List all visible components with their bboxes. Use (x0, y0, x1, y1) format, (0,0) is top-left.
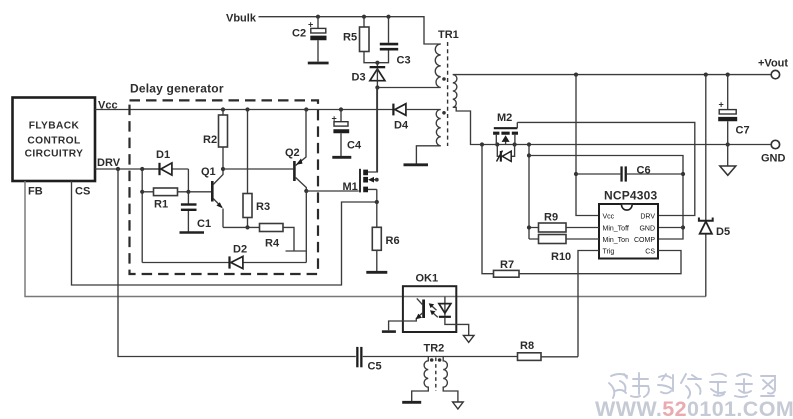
svg-text:C7: C7 (736, 125, 750, 137)
svg-text:R10: R10 (551, 251, 571, 263)
svg-text:GND: GND (761, 153, 786, 165)
svg-text:D4: D4 (394, 120, 409, 132)
ground bar under C2 (308, 62, 329, 65)
wire Vcc to R3 (247, 110, 249, 194)
svg-text:R3: R3 (256, 201, 270, 213)
wire Q1 emitter to node (223, 226, 260, 228)
capacitor C2 polarized (292, 17, 327, 62)
svg-text:Min_Toff: Min_Toff (603, 226, 629, 233)
svg-text:NCP4303: NCP4303 (604, 189, 658, 203)
ground bar for opto emitter (382, 330, 396, 333)
svg-text:Min_Ton: Min_Ton (603, 237, 630, 244)
wire gate node to M1 gate (306, 190, 358, 192)
wire TR1 aux bottom to ground (416, 146, 440, 164)
node TR1 aux phase dot (442, 111, 446, 115)
svg-text:R5: R5 (343, 32, 357, 44)
node M2 left leg (495, 142, 499, 146)
wire Vcc rail from controller to D4 (95, 109, 393, 111)
resistor R5 (343, 17, 377, 63)
svg-text:D3: D3 (352, 72, 366, 84)
svg-text:R7: R7 (500, 259, 514, 271)
node gnd branch (527, 142, 531, 146)
diode D4 (392, 104, 440, 132)
svg-text:CS: CS (75, 186, 90, 198)
node switch node (375, 85, 379, 89)
svg-text:Q1: Q1 (201, 166, 216, 178)
node R5 tap (362, 15, 366, 19)
capacitor C7 polarized (718, 75, 749, 145)
svg-text:Trig: Trig (603, 249, 615, 256)
node Q1 collector / R2 bottom (221, 167, 225, 171)
IC U1 NCP4303 (599, 189, 658, 259)
svg-text:D1: D1 (156, 149, 170, 161)
wire +Vout rail (453, 74, 771, 76)
resistor R4 (260, 224, 307, 252)
diode D5 zener (699, 75, 730, 297)
resistor R2 (203, 110, 228, 170)
diode D1 (142, 149, 188, 175)
node R9/R10 tie (527, 225, 531, 229)
svg-text:CIRCUITRY: CIRCUITRY (25, 149, 84, 160)
svg-text:M1: M1 (343, 181, 358, 193)
wire Q1 collector to Q2 base (223, 168, 293, 170)
svg-text:TR1: TR1 (438, 29, 459, 41)
wire IC GND pin (658, 227, 683, 229)
svg-text:R9: R9 (544, 212, 558, 224)
resistor R7 (482, 145, 519, 278)
wire base node to Q1 (188, 191, 211, 193)
wire FB pin down and long feedback line to D5 (25, 181, 706, 297)
node TR1 primary phase dot (442, 77, 446, 81)
node M1 body tie (375, 178, 379, 182)
wire Trig pin to trigger network (578, 251, 599, 357)
transformer TR1 (435, 29, 459, 146)
svg-text:WWW.520101.COM: WWW.520101.COM (595, 397, 793, 419)
transistor Q2 (285, 110, 306, 192)
node DRV/D1/R1 (140, 167, 144, 171)
ground arrow for LED (463, 335, 474, 342)
capacitor C5 (356, 347, 381, 373)
svg-text:C2: C2 (292, 28, 306, 40)
wire switch node down to M1 drain (376, 88, 378, 173)
wire TR1 secondary bottom to M2 drain (453, 107, 482, 144)
svg-text:FLYBACK: FLYBACK (29, 121, 80, 132)
svg-text:C3: C3 (397, 55, 411, 67)
svg-text:GND: GND (639, 226, 655, 233)
node M2 right leg (513, 142, 517, 146)
output terminal GND (771, 140, 779, 148)
wire gnd sub-branch to IC ground column (529, 156, 683, 240)
capacitor C6 (576, 165, 683, 182)
node C6 right (681, 172, 685, 176)
svg-text:FB: FB (28, 186, 43, 198)
svg-text:R2: R2 (203, 134, 217, 146)
svg-text:R8: R8 (520, 340, 534, 352)
svg-text:R4: R4 (265, 238, 280, 250)
svg-text:Vcc: Vcc (603, 214, 615, 221)
svg-text:Delay generator: Delay generator (130, 82, 224, 96)
diode D2 (142, 244, 306, 269)
wire DRV from controller (95, 168, 160, 170)
svg-text:D2: D2 (233, 244, 247, 256)
wire DRV trigger line down to C5 (118, 169, 356, 357)
node clamp junction (375, 61, 379, 65)
transformer TR2 (412, 343, 458, 402)
resistor R10 (529, 235, 599, 264)
node D5 tap (704, 73, 708, 77)
ground bar for aux winding (404, 163, 429, 166)
wire Vbulk rail (259, 17, 441, 44)
node Q1 emitter / R3 / R4 (245, 225, 249, 229)
LED OK1 diode (439, 297, 469, 336)
ground bar TR2 primary (402, 401, 421, 404)
node Q2 collector / gate node (304, 189, 308, 193)
node TR2 phase dot left (430, 358, 434, 362)
wire C5 to TR2 and R8 (363, 356, 518, 358)
svg-text:R1: R1 (154, 199, 168, 211)
ground bar under C4 (332, 156, 351, 159)
ground bar under R6 (366, 271, 387, 274)
svg-text:M2: M2 (497, 112, 512, 124)
node Vcc/Q2 emitter (304, 107, 308, 111)
svg-text:TR2: TR2 (424, 343, 445, 355)
transistor M2 (493, 112, 518, 145)
svg-text:COMP: COMP (634, 237, 655, 244)
node gnd sub-branch (527, 153, 531, 157)
svg-text:C5: C5 (368, 361, 382, 373)
ground arrow below GND rail (720, 145, 736, 176)
wire gnd branch down to R9/R10 (528, 145, 530, 240)
svg-text:+Vout: +Vout (758, 58, 788, 70)
watermark chinese calligraphy (609, 373, 775, 398)
svg-text:R6: R6 (386, 235, 400, 247)
svg-text:+: + (719, 100, 724, 110)
node C6 left (574, 172, 578, 176)
node C2 tap (316, 15, 320, 19)
node Q1 base / C1 (186, 190, 190, 194)
svg-text:Vbulk: Vbulk (226, 13, 257, 25)
ground bar under C1 (180, 231, 205, 234)
wire CS pin to R7 (519, 251, 681, 274)
svg-text:CONTROL: CONTROL (27, 136, 80, 147)
wire gate node down to D2 (305, 191, 307, 263)
resistor R1 (142, 188, 188, 211)
resistor R3 (243, 194, 270, 228)
node Vcc feed tap (574, 73, 578, 77)
transistor M1 (343, 88, 377, 203)
wire CS pin down, to M1 source (72, 181, 377, 285)
delay generator dashed box (130, 100, 319, 274)
svg-text:D5: D5 (716, 226, 730, 238)
node R1 left (140, 190, 144, 194)
wire switch node to TR1 primary bottom (377, 87, 440, 89)
flyback controller U-box (13, 98, 96, 182)
node Vcc/R2 (221, 107, 225, 111)
node C7 bottom (726, 142, 730, 146)
resistor R9 (529, 212, 599, 233)
svg-text:CS: CS (645, 249, 655, 256)
node TR2 phase dot right (438, 358, 442, 362)
transistor OK1 phototransistor (389, 298, 424, 330)
wire M2 gate drive line from NCP4303 DRV (517, 122, 695, 215)
svg-text:C6: C6 (637, 165, 651, 177)
svg-text:C4: C4 (347, 140, 362, 152)
wire D1 anode down to base node (187, 169, 189, 192)
wire Vcc feed from Vout rail to IC Vcc pin (576, 75, 599, 216)
capacitor C3 (377, 17, 410, 67)
node Vcc/R3 feed (245, 107, 249, 111)
opto-coupler OK1 (403, 273, 456, 333)
node DRV branch (116, 167, 120, 171)
resistor R8 (518, 340, 579, 360)
diode M2 body diode (497, 145, 515, 162)
node C7 tap (726, 73, 730, 77)
opto light arrows (429, 303, 438, 317)
transistor Q1 (201, 166, 223, 227)
capacitor C4 polarized (332, 107, 362, 156)
node SR drain (480, 142, 484, 146)
wire GND rail (482, 144, 771, 146)
node IC GND pin junction (681, 225, 685, 229)
diode D3 (352, 63, 386, 88)
node C3 tap (386, 15, 390, 19)
resistor R6 (372, 202, 399, 271)
svg-text:OK1: OK1 (416, 273, 439, 285)
svg-text:Q2: Q2 (285, 147, 300, 159)
wire DRV node down to R1 (141, 169, 143, 263)
capacitor C1 (181, 192, 211, 232)
ground arrow TR2 secondary (453, 402, 464, 409)
node M1 source/R6 (375, 200, 379, 204)
svg-text:C1: C1 (197, 218, 211, 230)
svg-text:DRV: DRV (640, 214, 655, 221)
output terminal +Vout (771, 70, 779, 78)
